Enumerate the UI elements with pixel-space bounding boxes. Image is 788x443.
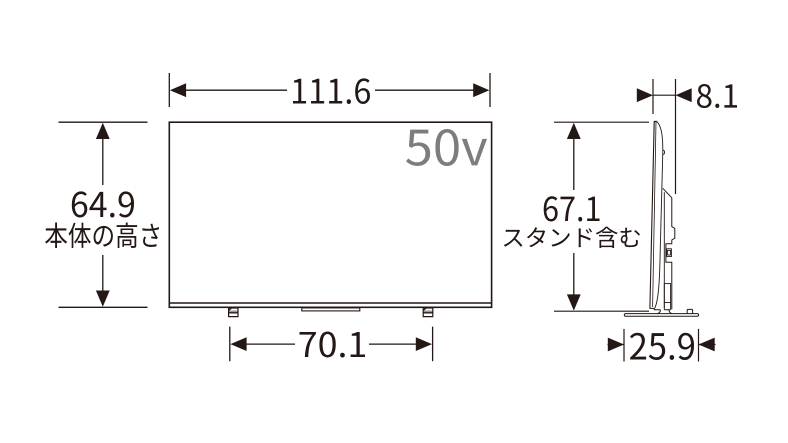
TV side view: panel back curve <box>655 122 663 308</box>
dimension 64.9: caption 本体の高さ <box>45 222 159 248</box>
TV front view: screen size label 50v <box>406 129 487 166</box>
dimension 70.1 (feet span): value label <box>299 332 364 358</box>
dimension 25.9 (base depth): value label <box>630 333 694 360</box>
TV side view: panel bottom cap <box>650 308 661 309</box>
TV front view: left foot <box>229 308 238 317</box>
TV side view: rear bracket detail <box>667 249 672 257</box>
dimension 111.6 (width): dimension line with outward arrows <box>170 83 490 97</box>
TV side view: panel top cap <box>654 121 657 123</box>
dimension 25.9 (base depth): inward arrows <box>608 338 716 352</box>
dimension 70.1 (feet span): dimension line with inward-facing arrows <box>230 337 432 351</box>
dimension 8.1 (panel depth): value label <box>697 84 737 108</box>
TV side view: chassis box top slant <box>663 188 672 198</box>
TV side view: chassis box rear edge with terminal bump <box>666 198 675 310</box>
dimension 25.9 (base depth): right extension tick <box>698 329 700 362</box>
dimension 67.1 (height incl. stand): bottom extension tick <box>554 310 649 312</box>
TV front view: bottom bezel line <box>169 302 491 304</box>
TV front view: right foot <box>423 308 433 317</box>
TV side view: rear access door <box>664 284 670 310</box>
TV side view: stand base plate <box>624 314 698 317</box>
TV front view: outer cabinet outline <box>169 122 491 307</box>
dimension 111.6 (width): left extension tick <box>168 73 170 107</box>
TV side view: panel front edge (outer line) <box>650 122 654 308</box>
TV side view: stand neck <box>657 310 672 314</box>
TV side view: chassis box front edge <box>663 192 665 308</box>
dimension 64.9 (panel height): top extension tick <box>59 121 148 123</box>
dimension 67.1 (height incl. stand): value label <box>544 196 600 221</box>
TV front view: center bottom speaker bar <box>302 308 360 311</box>
dimension 64.9 (panel height): value label <box>72 191 134 217</box>
dimension 64.9 (panel height): bottom extension tick <box>59 306 148 308</box>
dimension 67.1 (height incl. stand): top extension tick <box>554 121 649 123</box>
dimension 67.1: caption スタンド含む <box>504 227 640 248</box>
dimension 111.6 (width): value label <box>293 78 370 104</box>
dimension 25.9 (base depth): left extension tick <box>623 329 625 362</box>
dimension 70.1 (feet span): left extension tick <box>229 327 231 362</box>
dimension 8.1 (panel depth): right extension tick <box>675 79 677 194</box>
dimension 67.1 (height incl. stand): dimension line with outward arrows <box>567 123 581 311</box>
dimension 8.1 (panel depth): left extension tick <box>652 79 654 114</box>
TV side view: rear support foot <box>687 309 692 313</box>
dimension 70.1 (feet span): right extension tick <box>432 327 434 362</box>
dimension 64.9 (panel height): dimension line with outward arrows <box>96 123 110 307</box>
dimension 111.6 (width): right extension tick <box>489 73 491 107</box>
dimension 8.1 (panel depth): inward arrows and line <box>637 88 692 102</box>
TV side view: panel front edge (inner line) <box>653 122 656 307</box>
TV side view: small hook on panel back <box>663 150 665 155</box>
